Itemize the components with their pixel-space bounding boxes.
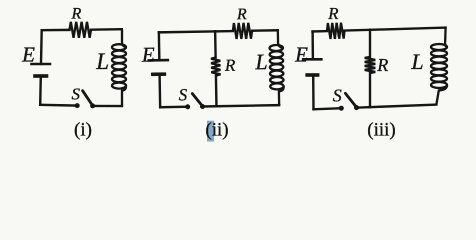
svg-text:L: L [95, 49, 109, 74]
svg-text:R: R [71, 6, 82, 23]
svg-text:S: S [179, 85, 188, 104]
svg-text:R: R [236, 6, 247, 23]
svg-text:R: R [224, 56, 236, 75]
svg-text:E: E [21, 43, 35, 67]
svg-text:(iii): (iii) [367, 119, 396, 140]
svg-text:S: S [333, 85, 342, 105]
svg-text:R: R [376, 55, 388, 75]
svg-text:(ii): (ii) [205, 119, 228, 140]
svg-text:(i): (i) [74, 119, 92, 140]
svg-text:L: L [254, 49, 268, 74]
svg-text:S: S [72, 84, 81, 103]
svg-text:L: L [410, 49, 423, 74]
svg-text:E: E [294, 43, 308, 67]
svg-text:R: R [327, 4, 339, 23]
svg-text:E: E [141, 42, 155, 66]
